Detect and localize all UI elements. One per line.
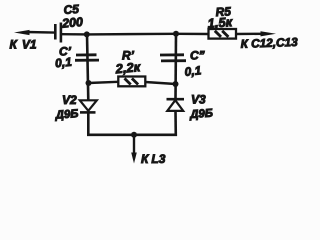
resistor R5 power marks [215, 31, 221, 37]
node: bottom junction [131, 132, 137, 138]
svg-text:Д9Б: Д9Б [189, 108, 214, 122]
svg-text:КV1: КV1 [10, 38, 37, 52]
node: right R' junction [173, 81, 179, 87]
wire: down to K L3 arrow [133, 135, 135, 154]
node: top-left junction [84, 31, 90, 37]
wire: C5 to left-top junction [62, 33, 88, 36]
arrow to K C12,C13 (right) [261, 31, 277, 36]
diode V3 (pointing up) triangle [167, 100, 183, 111]
svg-text:V2: V2 [62, 93, 77, 107]
svg-text:К С12,С13: К С12,С13 [240, 35, 298, 51]
capacitor C' plate top [76, 53, 97, 56]
diode V2 cathode bar [80, 111, 96, 114]
wire: R' left lead [89, 82, 119, 83]
wire: left branch vertical [87, 34, 88, 100]
capacitor C'' plate top [160, 53, 184, 56]
diode V3 cathode bar [167, 98, 185, 101]
wire: top middle between junctions [87, 33, 176, 36]
svg-text:Д9Б: Д9Б [54, 108, 79, 122]
capacitor C5 plate right [60, 23, 63, 43]
wire: V2 to bottom wire [87, 112, 90, 136]
svg-text:V3: V3 [191, 93, 206, 107]
resistor R' power marks [125, 78, 131, 84]
resistor R' body [118, 77, 145, 87]
node: left R' junction [86, 80, 92, 86]
wire: bottom horizontal [87, 134, 177, 137]
capacitor C'' plate bottom [161, 59, 186, 62]
svg-text:0,1: 0,1 [184, 63, 202, 79]
arrow to K V1 (left) [14, 30, 30, 35]
svg-text:С”: С” [190, 49, 205, 63]
wire: R' right lead [145, 82, 175, 84]
diode V2 (pointing down) triangle [80, 100, 97, 111]
wire: V3 to bottom wire [174, 111, 177, 136]
svg-text:КL3: КL3 [141, 152, 166, 166]
svg-text:1,5к: 1,5к [207, 14, 234, 31]
wire: junction to R5 [176, 33, 208, 36]
svg-text:2,2к: 2,2к [114, 59, 142, 76]
wire: R5 to right arrow [236, 33, 263, 36]
node: top-right junction [173, 31, 179, 37]
wire: right branch vertical [174, 34, 177, 100]
resistor R5 body [209, 29, 237, 39]
capacitor C5 plate left [54, 24, 57, 40]
wire: top left segment to K V1 arrow [26, 31, 55, 34]
svg-text:0,1: 0,1 [54, 55, 72, 71]
svg-text:200: 200 [61, 15, 84, 31]
arrow to K L3 (down) [131, 153, 137, 164]
capacitor C' plate bottom [75, 59, 99, 62]
